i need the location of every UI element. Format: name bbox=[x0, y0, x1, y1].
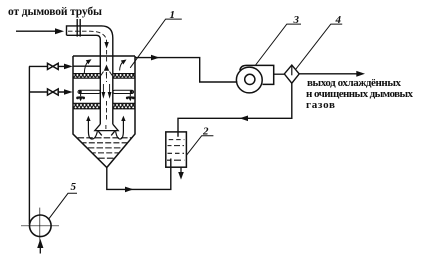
svg-text:от дымовой трубы: от дымовой трубы bbox=[8, 6, 102, 18]
svg-text:1: 1 bbox=[170, 9, 176, 21]
svg-text:4: 4 bbox=[335, 14, 342, 26]
svg-text:5: 5 bbox=[71, 181, 77, 193]
svg-text:газов: газов bbox=[306, 99, 335, 111]
svg-text:2: 2 bbox=[202, 125, 209, 137]
svg-text:3: 3 bbox=[293, 14, 300, 26]
